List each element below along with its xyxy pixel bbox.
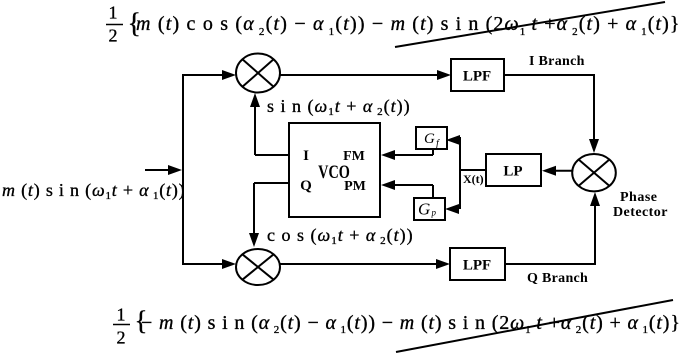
svg-text:G: G bbox=[418, 200, 430, 219]
svg-text:2: 2 bbox=[117, 328, 126, 348]
svg-text:1: 1 bbox=[109, 3, 118, 23]
svg-text:p: p bbox=[431, 208, 437, 218]
svg-text:LPF: LPF bbox=[463, 258, 491, 274]
svg-text:2: 2 bbox=[109, 26, 118, 46]
svg-text:FM: FM bbox=[343, 149, 365, 164]
svg-text:c o s (ω1t + α 2(t)): c o s (ω1t + α 2(t)) bbox=[267, 225, 414, 247]
svg-text:Phase: Phase bbox=[620, 190, 658, 205]
svg-text:1: 1 bbox=[117, 305, 126, 325]
svg-text:s i n (ω1t + α 2(t)): s i n (ω1t + α 2(t)) bbox=[267, 96, 411, 118]
svg-text:X(t): X(t) bbox=[463, 172, 484, 186]
svg-text:G: G bbox=[424, 131, 435, 147]
svg-text:m (t) c o s (α 2(t) − α 1(t)): m (t) c o s (α 2(t) − α 1(t)) − m (t) s … bbox=[136, 13, 681, 38]
svg-text:LP: LP bbox=[503, 164, 522, 180]
svg-text:− m (t) s i n (α 2(t) − α 1(t): − m (t) s i n (α 2(t) − α 1(t)) − m (t) … bbox=[141, 312, 681, 336]
svg-text:Q: Q bbox=[300, 178, 312, 194]
svg-text:I Branch: I Branch bbox=[529, 54, 585, 69]
svg-text:Detector: Detector bbox=[613, 205, 668, 220]
svg-text:Q Branch: Q Branch bbox=[527, 271, 588, 286]
svg-text:PM: PM bbox=[344, 179, 366, 194]
svg-text:LPF: LPF bbox=[463, 69, 491, 85]
svg-text:I: I bbox=[303, 148, 309, 164]
